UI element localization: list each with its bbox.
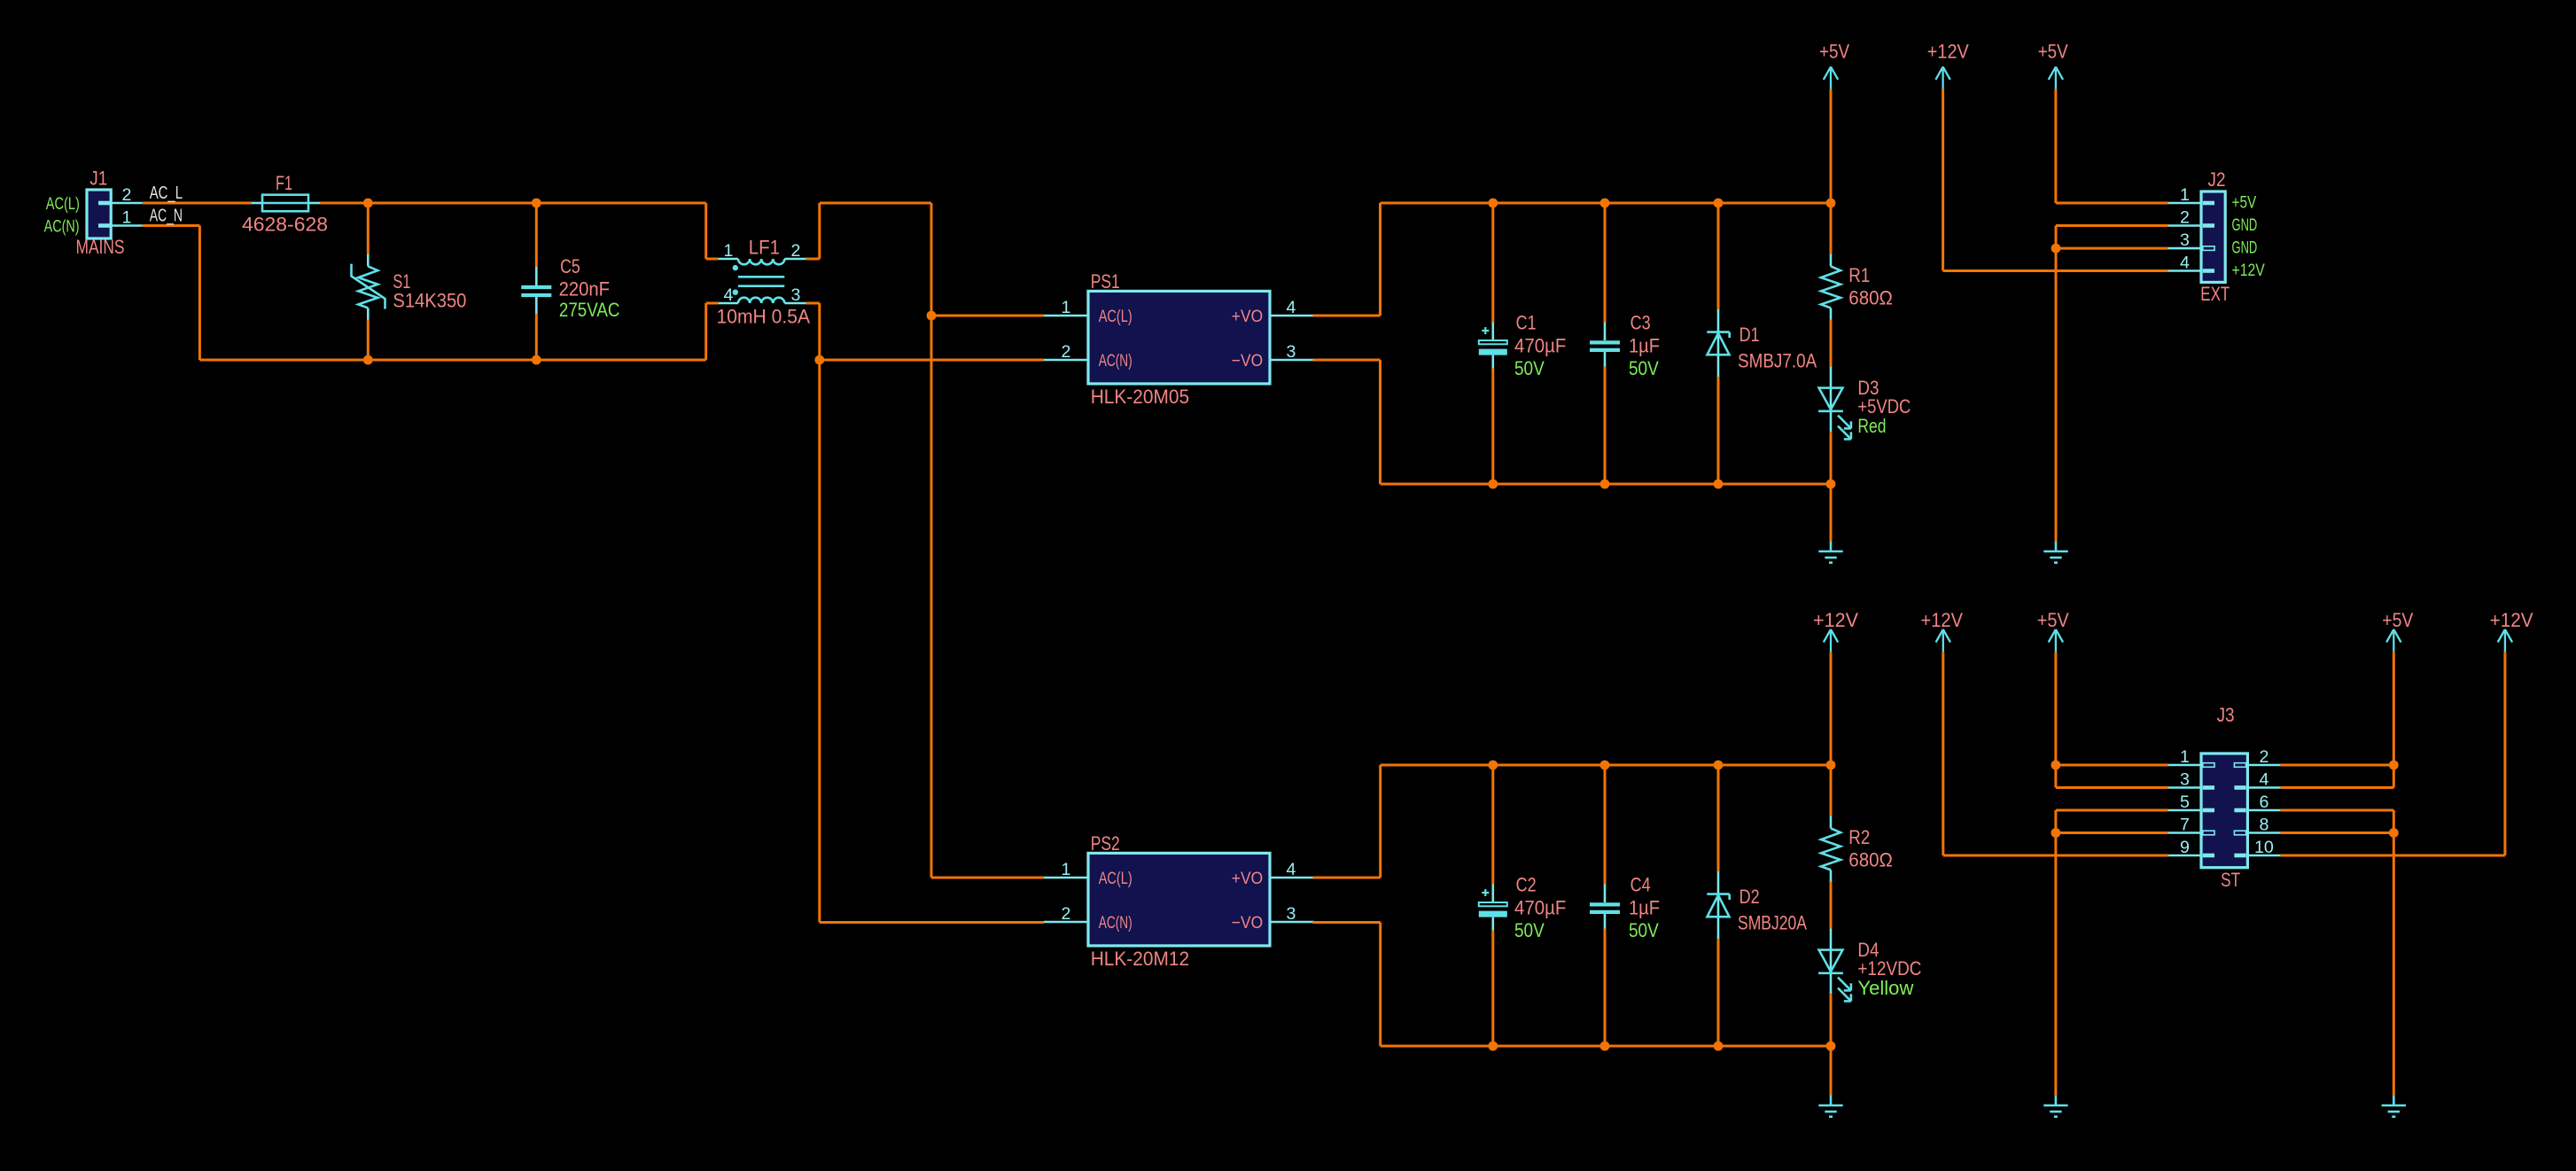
svg-text:AC_N: AC_N [150,207,183,226]
J2 pin 1 stub [2168,202,2201,205]
J1 pin 1 mark [98,223,111,228]
J3 pin 5 mark [2203,808,2214,813]
wire C1 bottom [1491,369,1494,485]
wire C3 bottom [1604,367,1607,485]
svg-text:10: 10 [2254,838,2274,857]
J3 pin 9 stub [2168,855,2201,857]
LF1 core line 2 [738,285,784,287]
ground GND4 [2043,1095,2067,1116]
J3 pin 7 mark [2203,831,2214,835]
wire GND bottom rail [1381,483,1832,486]
junction gnd2 rail x1811 [1600,1042,1610,1051]
F1 right lead [308,202,320,205]
svg-text:Red: Red [1857,415,1886,437]
J3 pin 2 stub [2247,764,2280,767]
wire R1 top [1830,203,1833,254]
svg-text:470µF: 470µF [1514,897,1566,919]
svg-text:2: 2 [2259,747,2269,767]
svg-text:+5V: +5V [1819,41,1849,63]
PS1 pin3 stub [1270,359,1314,362]
wire +5V c down [2054,652,2057,788]
svg-text:470µF: 470µF [1514,335,1566,357]
svg-text:1µF: 1µF [1629,897,1660,919]
C4 bottom stub [1604,914,1607,929]
connector J2 [2201,191,2225,282]
svg-text:GND: GND [2232,238,2258,257]
junction +12V rail x1684 [1488,761,1498,770]
S1 bottom stub [367,308,370,320]
C5 bottom stub [535,297,538,314]
svg-text:AC(L): AC(L) [1099,869,1132,888]
junction S1 bottom [363,355,373,365]
svg-text:220nF: 220nF [559,278,610,301]
wire +5V top rail [1381,202,1832,205]
svg-text:50V: 50V [1629,919,1659,941]
junction C5 top [532,199,541,208]
LF1 pin1 stub [719,258,738,261]
svg-text:F1: F1 [276,172,292,194]
wire to GND1 [1830,484,1833,541]
wire +12V rail [1381,764,1831,767]
C2 top stub [1492,885,1495,903]
power symbol +12V a [1935,66,1950,90]
C1 bottom stub [1492,355,1495,369]
junction top rail x1811 [1600,199,1610,208]
R2 bottom stub [1830,870,1833,882]
svg-text:4: 4 [2180,253,2190,272]
svg-text:SMBJ20A: SMBJ20A [1738,912,1807,934]
J3 pin 2 mark [2234,763,2245,768]
J3 pin 8 mark [2234,831,2245,835]
svg-text:4628-628: 4628-628 [242,214,328,236]
wire C2 top [1491,765,1494,885]
wire LF1 pin2 h [806,258,820,261]
svg-text:+12V: +12V [2232,261,2265,280]
wire to PS2 pin1 [931,877,1044,879]
wire C5 top [535,203,538,267]
wire C1 top [1491,203,1494,323]
wire R2 to D4 [1830,882,1833,929]
wire D4 bottom [1830,994,1833,1046]
wire AC_N J1 right [143,224,200,227]
junction gnd2 rail x2066 [1826,1042,1836,1051]
svg-text:S14K350: S14K350 [393,290,466,312]
wire J3 pin10 [2280,855,2505,857]
svg-text:1µF: 1µF [1629,335,1660,357]
wire to PS1 pin1 [931,315,1044,317]
LF1 phase dot 2 [733,290,738,295]
svg-text:3: 3 [2180,769,2190,789]
wire J3 pin4 [2280,786,2393,789]
LF1 pin2 stub [784,258,806,261]
capacitor C5 [521,287,551,295]
wire AC L vertical [930,203,933,878]
wire +12V a down [1942,90,1944,271]
wire LF1 pin2 top rail [820,202,931,205]
varistor S1 strike [352,264,385,309]
power module PS1 [1088,291,1270,384]
diode D1 [1707,332,1729,355]
svg-text:J2: J2 [2208,168,2226,191]
junction top rail x1939 [1714,199,1724,208]
PS1 pin1 stub [1044,315,1088,317]
J2 pin 4 stub [2168,269,2201,272]
PS2 pin4 stub [1270,877,1314,879]
D3 wire through [1830,366,1833,432]
junction J3 pin2 [2389,761,2399,770]
svg-text:R2: R2 [1848,826,1870,848]
PS2 pin3 stub [1270,921,1314,924]
C2 bottom stub [1492,917,1495,931]
svg-text:2: 2 [791,241,801,261]
wire D3 bottom [1830,432,1833,484]
wire +12V d down [2503,652,2506,855]
wire J3 pin6 [2280,809,2393,812]
svg-text:9: 9 [2180,838,2190,857]
wire C4 bottom [1604,929,1607,1047]
svg-text:C4: C4 [1630,874,1651,896]
capacitor C1 [1479,340,1507,344]
ground GND2 [2043,541,2067,562]
wire LF1 pin2 up [818,203,821,259]
capacitor C4 [1590,904,1620,912]
ground GND3 [1818,1095,1842,1116]
junction S1 top [363,199,373,208]
svg-text:3: 3 [1287,342,1296,362]
svg-text:3: 3 [791,285,801,305]
svg-text:275VAC: 275VAC [559,299,620,321]
C5 top stub [535,267,538,285]
svg-text:+12V: +12V [2490,609,2533,631]
J3 pin 1 stub [2168,764,2201,767]
J3 pin 3 stub [2168,786,2201,789]
wire J3 pin8 [2280,831,2393,834]
junction J3 pin1 [2051,761,2061,770]
wire PS1 -V down [1379,360,1381,484]
ground GND1 [1818,541,1842,562]
wire J2 pin3 gnd [2056,247,2168,250]
LED D4 [1818,950,1851,1002]
wire to J3 pin3 [2056,786,2168,789]
junction C5 bottom [532,355,541,365]
C1 top stub [1492,323,1495,341]
PS1 pin2 stub [1044,359,1088,362]
wire LF1 pin1 h [706,258,719,261]
wire PS2 -V down [1379,923,1381,1047]
junction J2 pin3 tap [2051,244,2061,254]
svg-text:5: 5 [2180,792,2190,812]
varistor S1 body [358,266,377,308]
svg-text:AC(N): AC(N) [44,216,80,236]
svg-text:8: 8 [2259,815,2269,834]
fuse F1 [262,195,308,212]
wire to PS1 pin2 [820,359,1044,362]
power symbol +5V c [2049,629,2063,652]
svg-text:2: 2 [2180,207,2190,227]
junction gnd2 rail x1939 [1714,1042,1724,1051]
wire GND2 bottom rail [1381,1045,1831,1048]
PS2 pin2 stub [1044,921,1088,924]
resistor R2 [1821,828,1841,870]
svg-text:+12V: +12V [1927,41,1969,63]
wire +12V b [1830,652,1833,765]
svg-text:LF1: LF1 [749,237,780,259]
svg-text:ST: ST [2221,869,2240,891]
J3 pin 4 mark [2234,785,2245,790]
svg-text:D2: D2 [1739,886,1760,908]
svg-text:7: 7 [2180,815,2190,834]
svg-text:+5V: +5V [2037,609,2069,631]
power symbol +12V d [2498,629,2512,652]
svg-text:J1: J1 [89,168,107,190]
svg-text:PS1: PS1 [1091,270,1120,293]
wire to GND3 [1830,1046,1833,1095]
svg-text:3: 3 [1287,904,1296,924]
power symbol +12V b [1824,629,1838,652]
J2 pin 2 mark [2203,223,2214,228]
wire J3 pin5 gnd [2056,809,2168,812]
svg-text:HLK-20M05: HLK-20M05 [1091,386,1189,408]
wire J3 pin2 [2280,764,2393,767]
junction top rail x2066 [1826,199,1836,208]
junction bottom rail x2066 [1826,480,1836,489]
J2 pin 3 stub [2168,247,2201,250]
junction +12V rail x1811 [1600,761,1610,770]
svg-text:GND: GND [2232,215,2258,235]
svg-text:6: 6 [2259,792,2269,812]
svg-text:3: 3 [2180,230,2190,250]
svg-text:C5: C5 [560,255,580,277]
wire J2 gnd vertical [2055,226,2058,542]
R1 top stub [1830,254,1833,266]
junction bottom rail x1939 [1714,480,1724,489]
R2 top stub [1830,816,1833,828]
svg-text:EXT: EXT [2200,283,2230,305]
J3 pin 10 stub [2247,855,2280,857]
J3 pin 5 stub [2168,809,2201,812]
J2 pin 2 stub [2168,224,2201,227]
C3 bottom stub [1604,352,1607,367]
svg-text:AC_L: AC_L [150,183,183,203]
wire to LF1 pin1 down [704,203,707,259]
J3 pin 3 mark [2203,785,2214,790]
wire +12V c down [1942,652,1944,855]
junction +12V rail x1939 [1714,761,1724,770]
wire +12V a to J2 pin4 [1943,269,2168,272]
LED D3 [1818,388,1851,440]
resistor R1 [1821,266,1841,308]
wire AC_L J1 to F1 [143,202,252,205]
LF1 pin3 stub [784,302,806,305]
svg-text:+12V: +12V [1921,609,1964,631]
svg-text:HLK-20M12: HLK-20M12 [1091,948,1189,970]
J3 pin 9 mark [2203,854,2214,858]
wire to J3 pin7 [2056,831,2168,834]
svg-text:2: 2 [1062,904,1071,924]
power symbol +5V d [2386,629,2401,652]
svg-text:R1: R1 [1848,264,1870,286]
svg-text:4: 4 [724,285,734,305]
svg-text:1: 1 [1062,860,1071,879]
svg-text:D1: D1 [1739,324,1760,346]
wire C5 bottom [535,314,538,360]
wire LF1 pin3 h [806,302,820,305]
junction gnd2 rail x1684 [1488,1042,1498,1051]
svg-text:+12V: +12V [1813,609,1858,631]
PS1 pin4 stub [1270,315,1314,317]
capacitor C2 [1479,902,1507,906]
svg-text:SMBJ7.0A: SMBJ7.0A [1738,350,1817,372]
ground GND5 [2382,1095,2406,1116]
wire PS2 pin4 out [1313,877,1381,879]
wire D2 bottom [1717,939,1720,1046]
wire F1 to LF1 top rail [320,202,706,205]
junction bottom rail x1811 [1600,480,1610,489]
svg-text:PS2: PS2 [1091,832,1120,855]
power symbol +12V c [1936,629,1950,652]
svg-text:Yellow: Yellow [1857,977,1913,999]
junction J3 pin8 [2389,828,2399,838]
J3 pin 8 stub [2247,831,2280,834]
svg-text:AC(L): AC(L) [46,194,80,214]
wire J2 pin2 gnd [2056,224,2168,227]
power symbol +5V a [1824,66,1838,90]
svg-text:4: 4 [2259,769,2269,789]
power module PS2 [1088,853,1270,946]
svg-text:4: 4 [1287,298,1296,317]
diode D2 [1707,894,1729,917]
J3 pin 10 mark [2234,854,2245,858]
wire J3 right gnd vertical [2393,810,2395,1095]
wire PS1 +V up [1379,203,1381,316]
J2 pin 3 mark [2203,246,2214,251]
S1 top stub [367,254,370,266]
wire C3 top [1604,203,1607,323]
J1 pin 1 stub [111,224,143,227]
junction bottom rail x1684 [1488,480,1498,489]
wire PS2 pin3 out [1313,921,1381,924]
J3 pin 4 stub [2247,786,2280,789]
LF1 phase dot 1 [733,265,738,270]
svg-text:1: 1 [724,241,734,261]
wire +5V a [1830,90,1833,203]
svg-text:+5V: +5V [2038,41,2068,63]
D1 wire through [1717,309,1720,377]
LF1 winding 1 [738,259,784,264]
wire to J3 pin1 [2056,764,2168,767]
svg-text:1: 1 [2180,185,2190,205]
svg-text:680Ω: 680Ω [1848,287,1893,309]
svg-text:+VO: +VO [1232,307,1263,326]
svg-text:1: 1 [2180,747,2190,767]
wire J3 gnd vertical [2054,810,2057,1095]
svg-text:C2: C2 [1516,874,1537,896]
wire D2 top [1717,765,1720,871]
svg-text:AC(L): AC(L) [1099,307,1132,326]
svg-text:50V: 50V [1514,357,1545,379]
wire S1 top [367,203,370,254]
wire R2 top [1830,765,1833,816]
svg-text:MAINS: MAINS [76,236,125,258]
junction +12V rail x2066 [1826,761,1836,770]
wire +5V b to J2 pin1 [2056,202,2168,205]
svg-text:+5V: +5V [2382,609,2413,631]
J2 pin 1 mark [2203,201,2214,206]
LF1 pin4 stub [719,302,738,305]
svg-text:50V: 50V [1629,357,1659,379]
F1 left lead [252,202,262,205]
J1 pin 2 mark [98,201,111,206]
wire LF1 pin3 vertical [818,303,821,923]
R1 bottom stub [1830,308,1833,320]
capacitor C3 [1590,342,1620,350]
svg-text:AC(N): AC(N) [1099,913,1132,933]
junction PS1 pin1 [927,311,937,321]
svg-text:2: 2 [1062,342,1071,362]
svg-text:−VO: −VO [1232,913,1263,933]
J3 pin 6 stub [2247,809,2280,812]
connector J1 [87,190,111,238]
wire +12V c to J3 pin9 [1943,855,2168,857]
J2 pin 4 mark [2203,269,2214,273]
wire to PS2 pin2 [820,921,1044,924]
J1 pin 2 stub [111,202,143,205]
J3 pin 1 mark [2203,763,2214,768]
wire S1 bottom [367,320,370,360]
junction PS1 pin2 [814,355,824,365]
wire PS1 pin3 out [1313,359,1381,362]
wire PS1 pin4 out [1313,315,1381,317]
svg-text:+5V: +5V [2232,192,2257,212]
C3 top stub [1604,323,1607,341]
PS2 pin1 stub [1044,877,1088,879]
wire R1 to D3 [1830,320,1833,367]
J3 pin 7 stub [2168,831,2201,834]
J3 pin 6 mark [2234,808,2245,813]
wire PS2 +V up [1379,765,1381,878]
svg-text:50V: 50V [1514,919,1545,941]
wire +5V d down [2393,652,2395,788]
wire C2 bottom [1491,931,1494,1047]
svg-text:+VO: +VO [1232,869,1263,888]
wire LF1 pin4 h [706,302,719,305]
wire +5V b down [2054,90,2057,203]
C4 top stub [1604,885,1607,903]
wire D1 bottom [1717,377,1720,484]
LF1 winding 2 [738,298,784,303]
svg-text:J3: J3 [2217,704,2235,726]
connector J3 [2201,753,2247,868]
svg-text:C3: C3 [1630,312,1651,334]
junction J3 pin7 [2051,828,2061,838]
svg-text:−VO: −VO [1232,351,1263,371]
wire LF1 pin4 vertical [704,303,707,360]
svg-text:1: 1 [1062,298,1071,317]
junction top rail x1684 [1488,199,1498,208]
svg-text:10mH 0.5A: 10mH 0.5A [717,306,811,328]
wire AC_N bottom rail [199,359,705,362]
LF1 core line 1 [738,276,784,278]
wire AC_N down [198,226,201,361]
wire D1 top [1717,203,1720,309]
D4 wire through [1830,928,1833,994]
svg-text:C1: C1 [1516,312,1537,334]
D2 wire through [1717,871,1720,939]
svg-text:4: 4 [1287,860,1296,879]
power symbol +5V b [2049,66,2063,90]
svg-text:AC(N): AC(N) [1099,351,1132,371]
svg-text:680Ω: 680Ω [1848,849,1893,871]
